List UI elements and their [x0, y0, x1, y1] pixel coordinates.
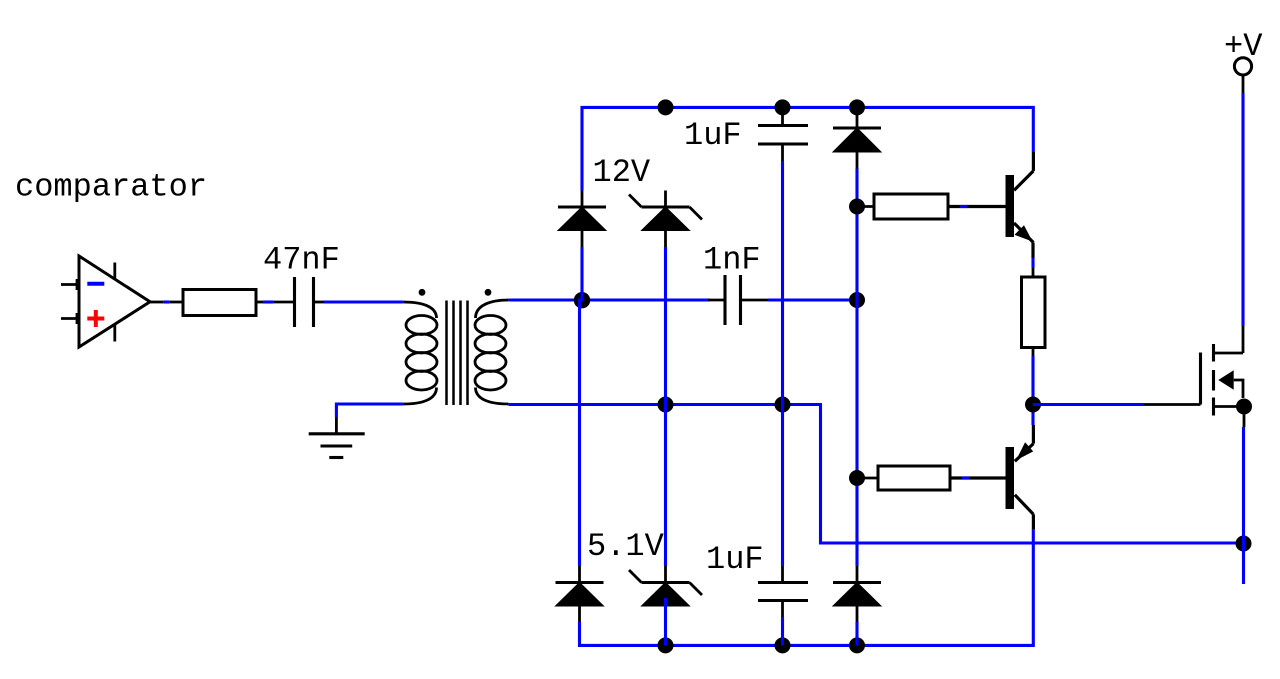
node	[1236, 399, 1252, 415]
wire top rail	[582, 107, 1033, 190]
diode D6	[833, 566, 881, 622]
resistor R1	[170, 290, 263, 316]
capacitor C1 47nF	[273, 277, 324, 327]
svg-text:5.1V: 5.1V	[587, 528, 665, 565]
transistor Q2	[1006, 425, 1034, 529]
node	[849, 292, 865, 308]
wire	[664, 247, 667, 566]
wire	[1031, 258, 1034, 268]
wire	[163, 300, 169, 303]
svg-text:1uF: 1uF	[706, 541, 764, 578]
svg-text:1uF: 1uF	[684, 117, 742, 154]
wire	[263, 300, 273, 303]
diode D4	[556, 566, 604, 622]
wire	[1031, 356, 1034, 425]
transformer T1	[403, 289, 508, 405]
wire bottom rail	[580, 529, 1034, 645]
wire	[1242, 427, 1245, 584]
node	[574, 292, 590, 308]
diode D3	[833, 108, 881, 169]
diode D1	[558, 191, 606, 248]
svg-text:1nF: 1nF	[703, 242, 761, 279]
node	[658, 397, 674, 413]
transistor Q1	[1006, 152, 1034, 258]
wire	[509, 405, 1243, 544]
wire gate	[1033, 403, 1144, 406]
wire	[336, 404, 403, 417]
svg-text:12V: 12V	[593, 154, 651, 191]
svg-text:+V: +V	[1224, 28, 1263, 65]
mosfet M1	[1201, 326, 1245, 427]
svg-text:47nF: 47nF	[263, 242, 340, 279]
wire	[664, 598, 667, 645]
capacitor C3 1uF	[758, 108, 808, 161]
svg-text:comparator: comparator	[15, 169, 207, 206]
resistor R2	[857, 194, 1006, 219]
terminal +V	[1234, 58, 1251, 93]
capacitor C4 1uF	[758, 566, 808, 617]
wire	[781, 161, 784, 566]
op-amp U1	[61, 256, 163, 347]
wire	[768, 298, 857, 301]
ground	[309, 417, 365, 458]
wire	[855, 169, 858, 567]
node	[1025, 397, 1041, 413]
resistor R4	[1022, 268, 1046, 356]
node	[1236, 536, 1252, 552]
wire	[1241, 93, 1244, 326]
node	[658, 99, 674, 115]
wire	[324, 300, 403, 303]
capacitor C2 1nF	[708, 275, 768, 325]
node	[849, 199, 865, 215]
wire	[855, 622, 858, 645]
node	[849, 99, 865, 115]
node	[849, 470, 865, 486]
node	[775, 397, 791, 413]
wire	[580, 247, 583, 566]
wire	[509, 298, 710, 301]
wire	[962, 476, 969, 479]
zener D5 5.1V	[629, 566, 702, 606]
node	[775, 99, 791, 115]
node	[658, 637, 674, 653]
resistor R3	[857, 466, 1006, 490]
node	[775, 637, 791, 653]
wire	[960, 205, 967, 208]
node	[849, 637, 865, 653]
wire	[781, 617, 784, 645]
zener D2 12V	[629, 191, 702, 248]
